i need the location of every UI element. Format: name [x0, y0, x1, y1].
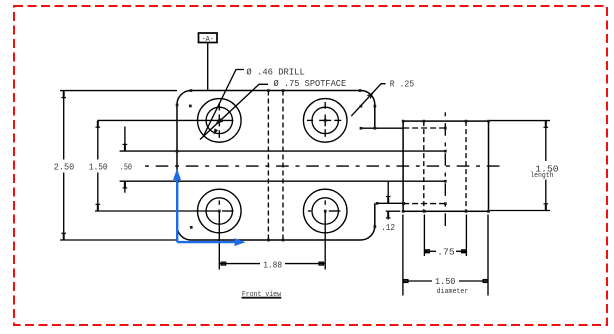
svg-text:R .25: R .25: [390, 79, 415, 90]
svg-text:diameter: diameter: [437, 288, 469, 296]
hole bottom-left spotface circle: [198, 189, 242, 233]
grip points front view part: [176, 89, 490, 241]
svg-text:1.50: 1.50: [435, 276, 456, 287]
UCS icon X arrowhead: [235, 238, 246, 246]
hole top-right drill circle: [312, 107, 338, 133]
dimension and note texts: [54, 66, 559, 299]
boss top edge (between views): [361, 127, 403, 129]
svg-text:1.50: 1.50: [89, 161, 108, 172]
grip points hole centers: [324, 119, 327, 122]
center mark hole bottom-right: [308, 200, 341, 211]
svg-text:length: length: [530, 172, 553, 180]
hidden hole line (side view, right): [465, 121, 467, 211]
slot upper edge: [120, 150, 446, 152]
side view cylinder outline: [403, 121, 488, 211]
grip points side view: [402, 120, 405, 123]
hole bottom-right spotface circle: [303, 189, 347, 233]
svg-text:-A-: -A-: [201, 36, 214, 44]
hidden edge line (front view, right): [282, 91, 284, 241]
dimension .50 (slot width): [123, 127, 128, 193]
hole top-right spotface circle: [303, 99, 347, 143]
svg-text:.12: .12: [381, 222, 395, 233]
center mark hole top-right: [307, 102, 341, 137]
svg-text:2.50: 2.50: [54, 161, 75, 172]
hidden edge line (front view, left): [267, 91, 269, 241]
hole top-left drill circle: [206, 107, 232, 133]
datum symbol -A-: [199, 33, 218, 44]
leader drill callout: [203, 70, 244, 138]
hidden line (side view, bottom): [403, 203, 445, 205]
svg-text:1.88: 1.88: [263, 259, 282, 270]
UCS icon Y arrowhead: [173, 169, 246, 247]
slot lower edge: [120, 180, 446, 182]
dimension .12 (boss offset): [386, 181, 400, 219]
dimension 2.50 (left overall height): [60, 91, 177, 240]
center mark hole bottom-left: [219, 200, 233, 211]
arrowhead on drill circle (drill leader): [214, 128, 219, 134]
boss bottom edge (between views): [377, 202, 404, 204]
svg-text:.75: .75: [437, 246, 455, 257]
hole bottom-left drill circle: [206, 198, 232, 224]
UCS icon axes (blue): [177, 179, 236, 242]
vertical centerline of side view: [444, 111, 446, 229]
center mark hole top-left: [218, 103, 220, 138]
hidden line (side view, top): [403, 127, 445, 129]
hole bottom-right drill circle: [312, 198, 338, 224]
open arrowhead on R .25 leader: [367, 93, 372, 98]
hole top-left spotface circle: [198, 99, 242, 143]
leader spotface callout: [200, 84, 268, 139]
arrowhead at hole center (spotface leader): [214, 117, 224, 134]
datum A stem: [207, 43, 209, 91]
part outline (front view plate with R.25 corner fillets): [177, 91, 375, 241]
leader R .25 callout: [351, 84, 385, 116]
hidden hole line (side view, left): [423, 121, 425, 211]
dimension .75 (side view hole): [424, 215, 466, 257]
svg-text:Ø .75 SPOTFACE: Ø .75 SPOTFACE: [274, 78, 347, 89]
svg-text:Ø .46 DRILL: Ø .46 DRILL: [246, 66, 305, 77]
svg-text:.50: .50: [120, 161, 132, 172]
dimension 1.50 (left hole spacing): [95, 120, 233, 211]
dimension 1.88 (hole column spacing): [219, 211, 325, 270]
dimension 1.50 diameter (side view width): [403, 215, 488, 296]
Front view underline: [242, 297, 282, 299]
dimension 1.50 length (side view height): [490, 121, 550, 211]
horizontal centerline: [145, 165, 501, 167]
